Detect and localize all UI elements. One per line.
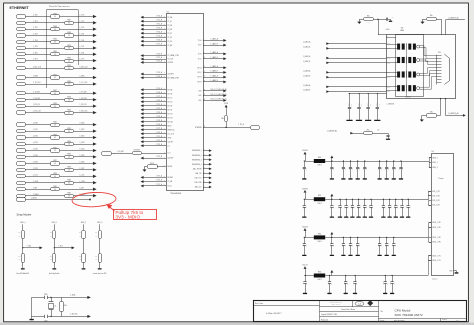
svg-text:100n: 100n xyxy=(341,244,343,247)
svg-text:1_TX2: 1_TX2 xyxy=(79,27,84,29)
svg-text:X1: X1 xyxy=(55,306,57,308)
svg-text:FB51: FB51 xyxy=(318,195,322,197)
svg-text:TX_3F: TX_3F xyxy=(168,37,173,39)
svg-text:ETHERNET: ETHERNET xyxy=(10,6,30,10)
svg-text:TPS6x8486/NB: TPS6x8486/NB xyxy=(170,193,181,195)
svg-text:VDD0_3: VDD0_3 xyxy=(432,167,438,169)
svg-text:1_CRS: 1_CRS xyxy=(33,181,38,183)
svg-text:1_RX7: 1_RX7 xyxy=(33,168,38,170)
svg-text:R29x: R29x xyxy=(64,305,67,307)
svg-text:1_RX7: 1_RX7 xyxy=(79,168,84,170)
svg-text:Strap Modes: Strap Modes xyxy=(17,213,32,217)
svg-text:RX_3H: RX_3H xyxy=(168,117,173,119)
svg-text:100n: 100n xyxy=(400,205,402,208)
svg-text:unknown: unknown xyxy=(432,278,437,280)
svg-text:49: 49 xyxy=(54,16,56,18)
svg-text:R829: R829 xyxy=(53,173,57,175)
svg-text:C289: C289 xyxy=(44,320,48,322)
svg-text:49: 49 xyxy=(68,48,70,50)
svg-text:R819: R819 xyxy=(53,103,57,105)
svg-text:VDD_3_IP1: VDD_3_IP1 xyxy=(432,200,440,202)
svg-text:1_MC_CLK: 1_MC_CLK xyxy=(33,66,42,68)
svg-text:VDD_1_IP1: VDD_1_IP1 xyxy=(432,191,440,193)
svg-text:100n: 100n xyxy=(302,244,304,247)
svg-text:R8099: R8099 xyxy=(150,163,154,165)
svg-text:49: 49 xyxy=(54,41,56,43)
svg-text:49: 49 xyxy=(54,176,56,178)
svg-text:MDIO_1: MDIO_1 xyxy=(52,222,57,224)
svg-text:R8x: R8x xyxy=(221,118,224,120)
svg-text:RESERVED_4: RESERVED_4 xyxy=(192,164,202,166)
svg-text:58r: 58r xyxy=(401,27,404,29)
svg-text:VDD0_2: VDD0_2 xyxy=(432,162,438,164)
svg-text:VDD4_1_IP5: VDD4_1_IP5 xyxy=(432,222,441,224)
svg-text:MCT5: MCT5 xyxy=(387,72,391,74)
svg-text:ETHPWN: ETHPWN xyxy=(195,127,202,129)
svg-text:100n: 100n xyxy=(363,167,365,170)
svg-text:1_RX0: 1_RX0 xyxy=(79,123,84,125)
svg-text:1_CRS: 1_CRS xyxy=(79,181,84,183)
svg-text:1_RX_CLK: 1_RX_CLK xyxy=(79,111,88,113)
svg-text:100n: 100n xyxy=(406,205,408,208)
svg-text:VDD3V3: VDD3V3 xyxy=(302,150,308,152)
svg-text:VDD3V3: VDD3V3 xyxy=(302,188,308,190)
svg-text:100n: 100n xyxy=(363,205,365,208)
svg-text:VDD4_2_IP5: VDD4_2_IP5 xyxy=(432,227,441,229)
svg-text:FB53: FB53 xyxy=(318,272,322,274)
svg-text:TX_3B: TX_3B xyxy=(168,25,173,27)
svg-text:MODE2: MODE2 xyxy=(168,177,174,179)
svg-text:R821: R821 xyxy=(53,121,57,123)
svg-text:1_RX1: 1_RX1 xyxy=(33,129,38,131)
svg-text:100n: 100n xyxy=(341,167,343,170)
svg-text:1_TX6: 1_TX6 xyxy=(79,52,84,54)
svg-text:Rev / Date: Rev / Date xyxy=(255,302,263,305)
svg-text:100n: 100n xyxy=(356,167,358,170)
svg-text:100n: 100n xyxy=(302,167,304,170)
svg-text:C8x: C8x xyxy=(377,130,380,132)
svg-text:100n: 100n xyxy=(330,244,332,247)
svg-text:R8x: R8x xyxy=(367,130,370,132)
svg-text:100n: 100n xyxy=(349,244,351,247)
svg-text:100n: 100n xyxy=(302,205,304,208)
svg-text:R8x: R8x xyxy=(95,256,98,258)
svg-text:U1: U1 xyxy=(167,11,169,13)
svg-text:100n: 100n xyxy=(378,244,380,247)
svg-text:R8x: R8x xyxy=(18,232,21,234)
svg-text:100n: 100n xyxy=(330,167,332,170)
svg-text:R814: R814 xyxy=(67,65,71,67)
svg-text:R8x: R8x xyxy=(79,232,82,234)
svg-text:100n: 100n xyxy=(348,103,350,106)
svg-text:1_TX6: 1_TX6 xyxy=(33,52,38,54)
svg-text:MCT2: MCT2 xyxy=(387,48,391,50)
svg-text:1_TX1: 1_TX1 xyxy=(79,21,84,23)
svg-text:VDD4_1_IP6: VDD4_1_IP6 xyxy=(432,237,441,239)
svg-text:1_MDC: 1_MDC xyxy=(33,76,39,78)
svg-text:Power: Power xyxy=(439,178,444,180)
svg-text:TX_CLK: TX_CLK xyxy=(168,59,174,61)
svg-text:VDD4_2_YN: VDD4_2_YN xyxy=(432,260,440,262)
svg-text:R816: R816 xyxy=(67,81,71,83)
svg-text:49: 49 xyxy=(54,54,56,56)
svg-text:GmbH + Co KG: GmbH + Co KG xyxy=(332,303,340,305)
svg-text:FB52: FB52 xyxy=(318,233,322,235)
svg-text:VDD1V5: VDD1V5 xyxy=(302,227,308,229)
svg-text:1_RX6: 1_RX6 xyxy=(33,162,38,164)
svg-text:Released: Released xyxy=(321,319,328,321)
svg-text:100n: 100n xyxy=(349,167,351,170)
svg-text:1_RX6: 1_RX6 xyxy=(79,162,84,164)
svg-text:MCT3: MCT3 xyxy=(387,58,391,60)
svg-text:STT7044/00: STT7044/00 xyxy=(394,320,404,322)
svg-text:RESERVED_2: RESERVED_2 xyxy=(192,155,202,157)
svg-text:VDD_IO: VDD_IO xyxy=(302,265,308,267)
svg-text:1_RX2: 1_RX2 xyxy=(79,136,84,138)
svg-text:CLKGPO: CLKGPO xyxy=(168,74,175,76)
svg-text:R828: R828 xyxy=(67,167,71,169)
svg-text:100n: 100n xyxy=(385,244,387,247)
svg-text:1_TX3: 1_TX3 xyxy=(79,34,84,36)
svg-text:RX_E: RX_E xyxy=(198,82,202,84)
svg-text:1_RX2: 1_RX2 xyxy=(33,136,38,138)
svg-text:RJ45: RJ45 xyxy=(438,52,441,54)
svg-text:MCT6: MCT6 xyxy=(387,77,391,79)
svg-text:R823: R823 xyxy=(53,134,57,136)
svg-text:49: 49 xyxy=(54,137,56,139)
svg-text:100n: 100n xyxy=(303,282,305,285)
svg-text:1_MDIO: 1_MDIO xyxy=(33,194,40,196)
svg-text:1_TX1: 1_TX1 xyxy=(33,21,38,23)
svg-text:1_TX2: 1_TX2 xyxy=(33,27,38,29)
svg-text:R824: R824 xyxy=(67,141,71,143)
svg-text:BLM18: BLM18 xyxy=(317,279,321,281)
svg-text:R809: R809 xyxy=(67,32,71,34)
svg-text:MDIO_0: MDIO_0 xyxy=(20,222,25,224)
svg-text:RX_3G: RX_3G xyxy=(168,113,174,115)
svg-text:Docum.: Docum. xyxy=(380,320,385,322)
svg-text:1_RX_DV: 1_RX_DV xyxy=(79,104,87,106)
svg-text:TX_3I: TX_3I xyxy=(168,21,173,23)
svg-text:Original 09.08.17 / NB: Original 09.08.17 / NB xyxy=(321,314,337,316)
svg-text:1_RX3: 1_RX3 xyxy=(79,142,84,144)
svg-text:1_INT: 1_INT xyxy=(79,187,83,189)
svg-text:100n: 100n xyxy=(390,282,392,285)
svg-text:TRST: TRST xyxy=(168,137,172,139)
svg-text:R818: R818 xyxy=(67,97,71,99)
svg-text:1_TX0: 1_TX0 xyxy=(79,15,84,17)
svg-text:FB50: FB50 xyxy=(318,157,322,159)
svg-text:of 14: of 14 xyxy=(456,320,459,322)
svg-text:100n: 100n xyxy=(381,205,383,208)
svg-text:100n: 100n xyxy=(394,205,396,208)
svg-text:49: 49 xyxy=(68,195,70,197)
svg-text:VDD4_1_YN: VDD4_1_YN xyxy=(432,256,440,258)
svg-text:49: 49 xyxy=(68,60,70,62)
svg-text:R817: R817 xyxy=(53,90,57,92)
svg-text:1_RX_ER: 1_RX_ER xyxy=(79,98,87,100)
svg-text:100n: 100n xyxy=(338,205,340,208)
svg-text:1_MDIO: 1_MDIO xyxy=(31,198,38,200)
svg-text:TX_3E: TX_3E xyxy=(168,29,173,31)
svg-text:1_TX4: 1_TX4 xyxy=(33,40,38,42)
svg-text:1_TX5: 1_TX5 xyxy=(79,46,84,48)
svg-text:RX_B: RX_B xyxy=(198,77,202,79)
svg-text:R8098/NF: R8098/NF xyxy=(134,149,140,151)
svg-text:TX_3I: TX_3I xyxy=(168,186,173,188)
svg-text:R813: R813 xyxy=(67,57,71,59)
svg-text:C-3: C-3 xyxy=(358,304,361,306)
svg-text:RX_3F: RX_3F xyxy=(168,109,173,111)
svg-text:RX_3B: RX_3B xyxy=(168,93,173,95)
svg-text:49: 49 xyxy=(54,77,56,79)
svg-text:49: 49 xyxy=(68,84,70,86)
svg-text:Place 50 Ohm near via: Place 50 Ohm near via xyxy=(49,6,70,8)
svg-text:1_TX7: 1_TX7 xyxy=(79,59,84,61)
svg-text:LAN: LAN xyxy=(400,29,404,32)
svg-text:1_RX5: 1_RX5 xyxy=(33,155,38,157)
svg-text:1_M_S: 1_M_S xyxy=(58,246,63,248)
svg-text:49: 49 xyxy=(54,150,56,152)
svg-text:1_RX_CLK: 1_RX_CLK xyxy=(33,111,42,113)
svg-text:R8x: R8x xyxy=(95,232,98,234)
svg-text:R8x: R8x xyxy=(18,256,21,258)
svg-text:1_COL: 1_COL xyxy=(33,174,38,176)
svg-text:1_TX7: 1_TX7 xyxy=(33,59,38,61)
svg-text:49: 49 xyxy=(54,163,56,165)
svg-text:LTC_CLK: LTC_CLK xyxy=(168,133,174,135)
svg-text:1_TX_EN: 1_TX_EN xyxy=(79,91,87,93)
svg-text:1_TX_CLK: 1_TX_CLK xyxy=(79,82,88,84)
svg-text:49: 49 xyxy=(68,99,70,101)
svg-text:100n: 100n xyxy=(350,205,352,208)
svg-text:R815: R815 xyxy=(53,74,57,76)
svg-text:R808: R808 xyxy=(53,26,57,28)
svg-text:49: 49 xyxy=(68,112,70,114)
svg-text:100n: 100n xyxy=(357,103,359,106)
svg-text:R832: R832 xyxy=(67,193,71,195)
svg-text:SOC 7044/00 2ST/V: SOC 7044/00 2ST/V xyxy=(395,313,424,317)
svg-text:1_RX3: 1_RX3 xyxy=(33,142,38,144)
svg-text:GND: GND xyxy=(449,270,452,272)
svg-text:100n: 100n xyxy=(344,282,346,285)
svg-text:MODE: MODE xyxy=(168,166,173,168)
svg-text:100n: 100n xyxy=(399,167,401,170)
svg-text:1_COL: 1_COL xyxy=(79,174,84,176)
svg-text:R806: R806 xyxy=(53,13,57,15)
svg-text:100n: 100n xyxy=(353,282,355,285)
svg-text:49: 49 xyxy=(54,124,56,126)
svg-text:BLM18: BLM18 xyxy=(317,241,321,243)
svg-text:1_TX4: 1_TX4 xyxy=(79,40,84,42)
svg-text:R8x: R8x xyxy=(430,15,433,17)
svg-text:49: 49 xyxy=(54,29,56,31)
svg-text:C288: C288 xyxy=(44,294,48,296)
svg-text:VDD4_2_IP6: VDD4_2_IP6 xyxy=(432,242,441,244)
svg-text:100n: 100n xyxy=(328,282,330,285)
svg-text:R812: R812 xyxy=(53,51,57,53)
svg-text:VDD_4_IP1: VDD_4_IP1 xyxy=(432,205,440,207)
svg-text:RX_3E: RX_3E xyxy=(168,105,173,107)
svg-text:49: 49 xyxy=(54,93,56,95)
svg-text:MCT1: MCT1 xyxy=(387,43,391,45)
svg-text:100n: 100n xyxy=(388,205,390,208)
svg-text:C8x: C8x xyxy=(392,17,395,19)
svg-text:RX_F: RX_F xyxy=(198,72,202,74)
svg-text:1_TX0: 1_TX0 xyxy=(33,15,38,17)
svg-text:49: 49 xyxy=(68,35,70,37)
svg-text:49: 49 xyxy=(68,157,70,159)
svg-text:R822: R822 xyxy=(67,128,71,130)
svg-text:49: 49 xyxy=(68,23,70,25)
svg-text:TX_F: TX_F xyxy=(198,45,202,47)
svg-text:VDD0_1: VDD0_1 xyxy=(432,158,438,160)
svg-text:BLM18: BLM18 xyxy=(317,165,321,167)
svg-text:TX_B: TX_B xyxy=(198,54,202,56)
svg-text:49: 49 xyxy=(54,106,56,108)
svg-text:R825: R825 xyxy=(53,147,57,149)
svg-text:MDIO_2: MDIO_2 xyxy=(81,222,86,224)
svg-text:100n: 100n xyxy=(330,205,332,208)
svg-text:49: 49 xyxy=(68,68,70,70)
svg-text:49: 49 xyxy=(54,189,56,191)
svg-text:VDD_2_IP1: VDD_2_IP1 xyxy=(432,195,440,197)
svg-text:1_RX0: 1_RX0 xyxy=(33,123,38,125)
svg-text:1_RX5: 1_RX5 xyxy=(79,155,84,157)
svg-text:100n: 100n xyxy=(356,244,358,247)
svg-text:1_TX3: 1_TX3 xyxy=(33,34,38,36)
svg-text:BLM18: BLM18 xyxy=(317,203,321,205)
svg-text:1_TX_CLK: 1_TX_CLK xyxy=(33,82,42,84)
svg-text:R810: R810 xyxy=(53,39,57,41)
svg-text:CLKPRI: CLKPRI xyxy=(168,62,174,64)
svg-text:1_TX_EN: 1_TX_EN xyxy=(33,91,41,93)
svg-text:1_RX_ER: 1_RX_ER xyxy=(33,98,41,100)
svg-text:100n: 100n xyxy=(378,167,380,170)
svg-text:1_TX5: 1_TX5 xyxy=(33,46,38,48)
svg-text:MCT8: MCT8 xyxy=(387,91,391,93)
svg-text:1_MC_CLK: 1_MC_CLK xyxy=(79,66,88,68)
svg-text:MDIO_3: MDIO_3 xyxy=(97,222,102,224)
svg-text:TX_E: TX_E xyxy=(198,58,202,60)
svg-text:1_RX_DV: 1_RX_DV xyxy=(33,104,41,106)
svg-text:49: 49 xyxy=(68,131,70,133)
svg-text:R830: R830 xyxy=(67,180,71,182)
svg-text:1_RX1: 1_RX1 xyxy=(79,129,84,131)
svg-text:49: 49 xyxy=(68,144,70,146)
svg-text:3V3 - MDIO: 3V3 - MDIO xyxy=(115,215,140,220)
svg-text:49: 49 xyxy=(68,182,70,184)
svg-text:100n: 100n xyxy=(357,205,359,208)
svg-text:R807: R807 xyxy=(67,20,71,22)
svg-text:R8x: R8x xyxy=(430,112,433,114)
svg-text:100n: 100n xyxy=(367,103,369,106)
svg-text:RESERVED_1: RESERVED_1 xyxy=(192,150,202,152)
svg-text:R831: R831 xyxy=(53,186,57,188)
svg-text:R826: R826 xyxy=(67,154,71,156)
svg-text:100n: 100n xyxy=(344,205,346,208)
svg-text:100n: 100n xyxy=(369,205,371,208)
svg-text:R8x: R8x xyxy=(367,15,370,17)
svg-text:3V3B: 3V3B xyxy=(224,103,228,105)
svg-text:100n: 100n xyxy=(392,244,394,247)
svg-text:1_INT: 1_INT xyxy=(33,187,37,189)
svg-text:R811: R811 xyxy=(67,45,71,47)
svg-text:1_MDC: 1_MDC xyxy=(79,76,85,78)
svg-text:R8x: R8x xyxy=(50,232,53,234)
svg-text:In Work / 09.08.17: In Work / 09.08.17 xyxy=(266,312,281,315)
svg-text:R820: R820 xyxy=(67,109,71,111)
svg-text:R8x: R8x xyxy=(50,256,53,258)
svg-text:100n: 100n xyxy=(383,282,385,285)
svg-text:R827: R827 xyxy=(53,160,57,162)
svg-text:1_RX4: 1_RX4 xyxy=(79,149,84,151)
svg-text:100n: 100n xyxy=(385,167,387,170)
svg-text:100n: 100n xyxy=(376,103,378,106)
svg-text:100n: 100n xyxy=(392,167,394,170)
svg-text:1_RX4: 1_RX4 xyxy=(33,149,38,151)
svg-text:RESERVED_3: RESERVED_3 xyxy=(192,159,202,161)
svg-text:U4: U4 xyxy=(432,151,434,153)
svg-text:49: 49 xyxy=(68,170,70,172)
svg-text:R8x: R8x xyxy=(79,256,82,258)
